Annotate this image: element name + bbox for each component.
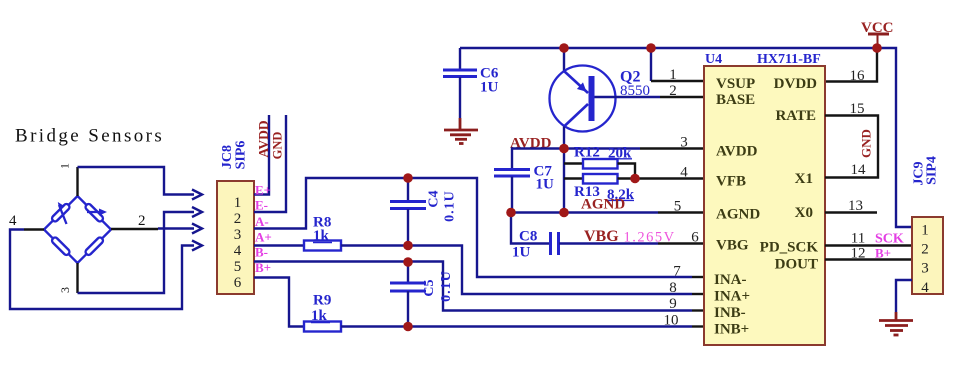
svg-text:3: 3 (921, 261, 929, 277)
junction AGND / AVDD vertical (559, 208, 569, 218)
svg-text:DVDD: DVDD (774, 76, 817, 92)
junction R9 row / C5 bottom (403, 322, 413, 332)
svg-text:1k: 1k (311, 308, 328, 324)
svg-text:INB+: INB+ (714, 322, 749, 338)
ground (JC9) (879, 312, 913, 335)
svg-text:2: 2 (921, 242, 929, 258)
junction R8 row / C4 bottom (403, 241, 413, 251)
svg-text:6: 6 (234, 275, 242, 291)
wire X0 pin13 stub (825, 211, 877, 213)
svg-text:AGND: AGND (716, 207, 760, 223)
svg-text:2: 2 (234, 211, 242, 227)
resistor R9 (304, 293, 341, 332)
svg-text:14: 14 (851, 162, 867, 178)
svg-text:1U: 1U (512, 245, 531, 261)
capacitor C7 (494, 164, 554, 213)
svg-text:SIP6: SIP6 (234, 141, 249, 170)
svg-text:4: 4 (921, 280, 929, 296)
svg-text:AVDD: AVDD (256, 120, 271, 158)
svg-text:2: 2 (669, 83, 677, 99)
svg-text:R12: R12 (574, 145, 600, 161)
svg-text:1k: 1k (313, 228, 330, 244)
wire AVDD node to C7 (512, 149, 564, 170)
svg-text:E-: E- (255, 198, 268, 213)
bridge sensor BR1 (44, 196, 111, 263)
svg-text:VBG: VBG (584, 228, 619, 245)
svg-text:C5: C5 (422, 279, 437, 296)
svg-text:X1: X1 (795, 171, 813, 187)
svg-text:3: 3 (234, 227, 242, 243)
svg-text:1: 1 (234, 195, 242, 211)
junction A- row / C4 top (403, 173, 413, 183)
svg-text:DOUT: DOUT (775, 257, 818, 273)
svg-text:3: 3 (680, 135, 688, 151)
svg-text:VBG: VBG (716, 238, 749, 254)
resistor R8 (304, 215, 341, 251)
svg-text:RATE: RATE (775, 108, 816, 124)
capacitor C8 (512, 229, 559, 261)
wire DOUT pin12 to JC9 pin3 (825, 258, 912, 260)
power VCC (861, 20, 894, 47)
svg-text:A-: A- (255, 214, 269, 229)
svg-text:1U: 1U (536, 177, 555, 193)
svg-text:X0: X0 (795, 205, 813, 221)
svg-text:C4: C4 (427, 190, 442, 207)
junction top wire / pin1 riser (646, 43, 656, 53)
capacitor C5 (390, 262, 454, 327)
svg-text:AGND: AGND (581, 197, 625, 213)
svg-text:1U: 1U (480, 80, 499, 96)
svg-text:0.1U: 0.1U (443, 190, 458, 222)
wire pin1 riser to VSUP (651, 48, 704, 81)
svg-text:7: 7 (673, 264, 681, 280)
IC U4 HX711-BF (704, 52, 825, 345)
svg-text:INB-: INB- (714, 305, 746, 321)
svg-text:9: 9 (669, 296, 677, 312)
wire net A- : JC8 pin3 to U4 INA- (254, 178, 704, 277)
resistor R12 (564, 145, 635, 179)
wire bridge top to arrow E+ (78, 167, 203, 200)
svg-text:R9: R9 (313, 293, 331, 309)
svg-text:B+: B+ (255, 260, 271, 275)
svg-text:VSUP: VSUP (716, 76, 755, 92)
resistor R13 (564, 174, 635, 203)
svg-text:Bridge Sensors: Bridge Sensors (15, 126, 164, 147)
junction B- row / C5 top (403, 257, 413, 267)
wire JC8 pin1 to AVDD stub (254, 115, 269, 195)
svg-text:4: 4 (680, 165, 688, 181)
wire AVDD vertical to AGND row (563, 149, 565, 213)
svg-text:PD_SCK: PD_SCK (760, 240, 819, 256)
wire bridge right to arrow A- (111, 224, 202, 234)
svg-text:10: 10 (664, 313, 679, 329)
wire AGND row to pin 5 (511, 211, 704, 213)
svg-text:VFB: VFB (716, 174, 746, 190)
wire VCC top rail (460, 48, 912, 227)
wire AGND to C8 (511, 213, 549, 244)
junction top wire / VCC DVDD (872, 43, 882, 53)
wire VFB node to pin 4 (635, 177, 704, 179)
connector JC8 SIP6 (217, 181, 254, 294)
svg-text:6: 6 (691, 230, 699, 246)
svg-text:E+: E+ (255, 183, 271, 198)
junction node VFB (630, 174, 640, 184)
svg-text:16: 16 (850, 68, 866, 84)
capacitor C4 (390, 178, 458, 246)
wire AVDD node to pin 3 (564, 147, 704, 149)
svg-text:GND: GND (271, 132, 285, 160)
wire JC9 pin4 to ground (896, 280, 912, 312)
svg-text:SCK: SCK (875, 232, 904, 247)
transistor Q2 (PNP 8550) (550, 48, 651, 149)
wire R8 out to U4 INA+ (341, 246, 704, 295)
wire Q2 base to U4 BASE pin 2 (595, 96, 705, 98)
wire C8 to pin 6 VBG (559, 242, 704, 244)
svg-text:5: 5 (234, 259, 242, 275)
svg-text:A+: A+ (255, 230, 272, 245)
svg-text:4: 4 (234, 243, 242, 259)
svg-text:1: 1 (669, 67, 677, 83)
svg-text:SIP4: SIP4 (925, 156, 940, 185)
svg-text:11: 11 (851, 231, 865, 247)
svg-text:5: 5 (674, 199, 682, 215)
wire R9 out to U4 INB+ (341, 325, 704, 327)
svg-text:AVDD: AVDD (716, 144, 758, 160)
wire net B+ : JC8 pin6 to R9 (254, 278, 304, 327)
svg-text:HX711-BF: HX711-BF (757, 52, 821, 67)
ground (C6) (444, 118, 478, 144)
wire DVDD pin16 riser (825, 48, 877, 82)
wire JC8 pin2 to GND stub (254, 115, 286, 212)
svg-text:INA+: INA+ (714, 289, 750, 305)
svg-text:3: 3 (58, 287, 72, 293)
svg-text:2: 2 (138, 213, 146, 229)
wire RATE pin15 to X1 pin14 (825, 116, 878, 178)
svg-text:1.265V: 1.265V (624, 230, 676, 246)
svg-text:0.1U: 0.1U (439, 270, 454, 302)
junction node AVDD (559, 144, 569, 154)
junction top wire / Q2 emitter (559, 43, 569, 53)
svg-text:1: 1 (58, 163, 72, 169)
svg-text:U4: U4 (705, 52, 722, 67)
capacitor C6 (443, 48, 499, 118)
svg-text:B-: B- (255, 245, 268, 260)
svg-text:4: 4 (9, 213, 17, 229)
wire bridge bottom to arrow E- (78, 207, 203, 293)
svg-text:C8: C8 (519, 229, 537, 245)
svg-text:BASE: BASE (716, 92, 755, 108)
wire PD_SCK pin11 to JC9 pin2 (825, 244, 912, 246)
wire net A+ : JC8 pin4 to R8 (254, 244, 304, 246)
svg-text:1: 1 (921, 223, 929, 239)
wire net B- : JC8 pin5 to U4 INB- (254, 262, 704, 311)
svg-text:INA-: INA- (714, 272, 747, 288)
junction AGND / C8 (506, 208, 516, 218)
wire bridge left outer loop to arrow A+ (10, 230, 202, 310)
svg-text:GND: GND (859, 129, 874, 158)
svg-text:8: 8 (669, 280, 677, 296)
connector JC9 SIP4 (912, 217, 943, 296)
svg-text:B+: B+ (875, 246, 891, 261)
